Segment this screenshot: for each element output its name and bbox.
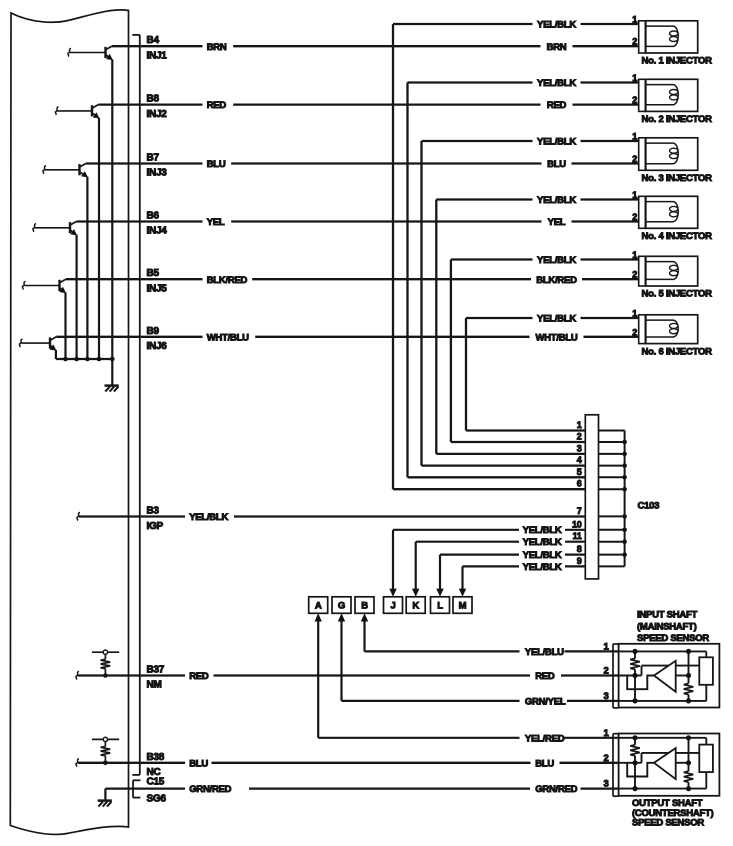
- junction C103 pin 7: [622, 514, 627, 519]
- wire YEL/BLK vertical bus to C103 pin 3: [435, 200, 437, 454]
- C103 pin 6 pass-through: [599, 488, 625, 490]
- svg-text:YEL/BLK: YEL/BLK: [537, 20, 576, 31]
- svg-text:3: 3: [603, 779, 608, 790]
- svg-text:SG6: SG6: [147, 793, 167, 804]
- junction C103 pin 4: [622, 463, 627, 468]
- svg-text:B4: B4: [147, 35, 160, 46]
- C103 pin 4 pass-through: [599, 465, 625, 467]
- svg-text:GRN/RED: GRN/RED: [189, 784, 231, 795]
- input sensor sense element: [699, 657, 713, 685]
- arrow into terminal M: [461, 566, 463, 590]
- injector no.4 connector: [639, 196, 646, 228]
- pin B9/INJ6 wire WHT/BLU (ECM to No.6 injector pin 2): [56, 336, 202, 338]
- svg-text:B38: B38: [147, 752, 165, 763]
- svg-text:2: 2: [632, 212, 637, 222]
- svg-text:YEL/BLK: YEL/BLK: [523, 525, 562, 536]
- terminal box L: [431, 597, 450, 614]
- svg-text:NM: NM: [147, 680, 162, 691]
- C103 pin 8 pass-through: [599, 554, 625, 556]
- arrow into terminal J: [392, 530, 394, 591]
- injector no.1 body with solenoid coil: [646, 21, 698, 53]
- wire bus to ground: [111, 359, 113, 385]
- wire YEL/BLK (C103 to No.3 injector pin 1): [422, 140, 533, 142]
- wire emitter Q6 to ground bus: [55, 350, 57, 359]
- svg-text:2: 2: [603, 753, 608, 764]
- C103 common bus (mating side): [624, 431, 626, 567]
- injector driver transistor Q1: [68, 48, 71, 56]
- output sensor junctions: [632, 735, 637, 740]
- svg-text:2: 2: [632, 95, 637, 105]
- svg-text:(MAINSHAFT): (MAINSHAFT): [637, 621, 697, 632]
- junction B37: [103, 673, 108, 678]
- C103 pin 5 pass-through: [599, 476, 625, 478]
- svg-text:GRN/RED: GRN/RED: [535, 784, 577, 795]
- svg-text:9: 9: [577, 556, 582, 566]
- svg-text:B: B: [361, 601, 368, 612]
- input sensor left bias resistor: [634, 651, 636, 658]
- svg-text:2: 2: [603, 666, 608, 677]
- junction C103 pin 2: [622, 440, 627, 445]
- C103 pin 9 pass-through: [599, 565, 625, 567]
- svg-text:BRN: BRN: [207, 42, 227, 53]
- output sensor connector bracket: [612, 734, 614, 797]
- svg-text:WHT/BLU: WHT/BLU: [207, 332, 249, 343]
- terminal box M: [453, 597, 472, 614]
- injector no.3 body with solenoid coil: [646, 138, 698, 171]
- svg-text:L: L: [437, 601, 443, 612]
- svg-text:B7: B7: [147, 153, 160, 164]
- input sensor junctions: [632, 649, 637, 654]
- wire YEL/BLK (C103 to No.1 injector pin 1): [393, 23, 533, 25]
- wire YEL/BLK C103 pin 8 to terminal L: [440, 553, 519, 555]
- pull-up resistor (B38): [104, 742, 106, 747]
- svg-text:RED: RED: [547, 100, 567, 111]
- svg-text:RED: RED: [535, 671, 555, 682]
- svg-text:1: 1: [632, 73, 637, 83]
- svg-text:INJ3: INJ3: [147, 168, 168, 179]
- pin B37/NM wire RED (to input shaft sensor pin 2): [76, 671, 79, 679]
- terminal box G: [332, 597, 351, 614]
- input sensor sense element connections: [705, 651, 707, 657]
- svg-text:1: 1: [632, 309, 637, 319]
- wire YEL/BLK (C103 to No.4 injector pin 1): [436, 198, 532, 200]
- pin C15/SG6 wire GRN/RED (to output shaft sensor pin 3): [105, 787, 185, 789]
- svg-text:No. 1 INJECTOR: No. 1 INJECTOR: [642, 56, 713, 67]
- C103 pin 3 pass-through: [599, 453, 625, 455]
- wire emitter Q1 to ground bus: [111, 59, 113, 359]
- svg-text:INJ4: INJ4: [147, 226, 168, 237]
- wire YEL/BLK vertical bus to C103 pin 1: [465, 318, 467, 431]
- output sensor top rail (pin 1): [619, 737, 707, 739]
- input sensor top rail (pin 1): [619, 650, 707, 652]
- input sensor pin 2 network: [619, 676, 654, 690]
- svg-text:C103: C103: [638, 501, 660, 512]
- svg-text:YEL: YEL: [207, 217, 225, 228]
- wire YEL/BLU (terminal B to input shaft sensor pin 1): [365, 650, 520, 652]
- svg-text:5: 5: [577, 467, 582, 477]
- svg-text:1: 1: [632, 15, 637, 25]
- injector driver transistor Q5: [22, 281, 25, 289]
- svg-text:1: 1: [632, 132, 637, 142]
- wire YEL/BLK C103 pin 11 to terminal K: [416, 541, 519, 543]
- junction C103 pin 10: [622, 528, 627, 533]
- injector no.6 connector: [639, 315, 646, 344]
- pin B6/INJ4 wire YEL (ECM to No.4 injector pin 2): [76, 220, 202, 222]
- svg-text:3: 3: [603, 691, 608, 702]
- svg-text:3: 3: [577, 443, 582, 453]
- junction C103 pin 11: [622, 539, 627, 544]
- wire YEL/RED (terminal A to output shaft sensor pin 1): [318, 737, 519, 739]
- svg-text:C15: C15: [147, 777, 165, 788]
- svg-text:G: G: [338, 601, 345, 612]
- pin B38/NC wire BLU (to output shaft sensor pin 2): [76, 759, 79, 767]
- injector no.3 connector: [639, 138, 646, 171]
- pin B5/INJ5 wire BLK/RED (ECM to No.5 injector pin 2): [66, 278, 203, 280]
- svg-text:B8: B8: [147, 94, 160, 105]
- wire YEL/BLK C103 pin 9 to terminal M: [463, 565, 520, 567]
- svg-text:BLK/RED: BLK/RED: [536, 275, 577, 286]
- svg-text:B37: B37: [147, 665, 165, 676]
- injector driver transistor Q2: [55, 107, 58, 115]
- injector no.6 body with solenoid coil: [646, 315, 698, 344]
- arrow into terminal G (from GRN/YEL): [340, 619, 342, 701]
- terminal box J: [384, 597, 403, 614]
- svg-text:11: 11: [572, 531, 581, 541]
- svg-text:2: 2: [632, 270, 637, 280]
- junction B38: [103, 761, 108, 766]
- svg-text:YEL/BLK: YEL/BLK: [523, 550, 562, 561]
- svg-text:2: 2: [632, 154, 637, 164]
- output sensor sense element: [699, 745, 713, 773]
- output sensor pin 2 network: [619, 763, 654, 777]
- C103 pin 10 pass-through: [599, 529, 625, 531]
- svg-text:2: 2: [632, 327, 637, 337]
- svg-text:RED: RED: [207, 100, 227, 111]
- svg-text:B9: B9: [147, 326, 160, 337]
- svg-text:YEL/BLU: YEL/BLU: [525, 647, 564, 658]
- terminal box B: [355, 597, 374, 614]
- terminal box K: [406, 597, 425, 614]
- ECM/PCM body outline (torn-edge box): [10, 10, 128, 835]
- ECM connector bracket: [139, 35, 141, 775]
- wire YEL/BLK vertical bus to C103 pin 2: [450, 260, 452, 443]
- output sensor body: [619, 734, 720, 796]
- svg-text:2: 2: [577, 432, 582, 442]
- svg-text:4: 4: [577, 455, 582, 465]
- svg-text:INJ6: INJ6: [147, 341, 168, 352]
- input sensor right bias resistor: [688, 651, 690, 683]
- pin B7/INJ3 wire BLU (ECM to No.3 injector pin 2): [86, 162, 203, 164]
- wire emitter Q4 to ground bus: [75, 235, 77, 359]
- arrow into terminal L: [439, 555, 441, 591]
- svg-text:INJ2: INJ2: [147, 109, 168, 120]
- input sensor connector bracket: [612, 644, 614, 708]
- injector no.5 connector: [639, 256, 646, 286]
- connector C103 body: [585, 415, 598, 579]
- injector driver transistor Q3: [43, 166, 46, 174]
- C103 pin 7 pass-through: [599, 515, 625, 517]
- output sensor sense element connections: [705, 738, 707, 745]
- wire emitter Q3 to ground bus: [86, 177, 88, 359]
- output sensor amplifier output to right rail: [676, 762, 689, 764]
- output sensor left bias resistor: [634, 738, 636, 745]
- output sensor bottom rail (pin 3): [619, 788, 707, 790]
- svg-text:8: 8: [577, 544, 582, 554]
- svg-text:YEL/RED: YEL/RED: [525, 733, 565, 744]
- wire YEL/BLK vertical bus to C103 pin 5: [406, 83, 408, 478]
- input sensor amplifier output to right rail: [676, 675, 689, 677]
- svg-text:IGP: IGP: [147, 521, 164, 532]
- terminal box A: [309, 597, 328, 614]
- junction C103 pin 3: [622, 452, 627, 457]
- ground (injector drivers): [105, 384, 119, 387]
- junction C103 pin 5: [622, 475, 627, 480]
- supply terminal circle (B38): [103, 737, 107, 741]
- arrow into terminal A (from YEL/RED): [317, 619, 319, 738]
- wire YEL/BLK (C103 to No.5 injector pin 1): [451, 258, 533, 260]
- svg-text:6: 6: [577, 479, 582, 489]
- supply terminal circle (B37): [103, 650, 107, 654]
- wire emitter Q2 to ground bus: [98, 118, 100, 359]
- junction C103 pin 6: [622, 487, 627, 492]
- injector no.2 body with solenoid coil: [646, 79, 698, 111]
- injector no.1 connector: [639, 21, 646, 53]
- injector driver transistor Q4: [33, 224, 36, 232]
- wire emitter Q5 to ground bus: [64, 292, 66, 359]
- injector driver transistor Q6: [19, 339, 22, 347]
- svg-text:BLK/RED: BLK/RED: [207, 275, 248, 286]
- input sensor amplifier (comparator): [654, 661, 676, 692]
- svg-text:1: 1: [632, 190, 637, 200]
- svg-text:1: 1: [577, 420, 582, 430]
- C103 pin 1 pass-through: [599, 430, 625, 432]
- C103 pin 11 pass-through: [599, 541, 625, 543]
- svg-text:YEL/BLK: YEL/BLK: [523, 562, 562, 573]
- input sensor bottom rail (pin 3): [619, 700, 707, 702]
- input sensor body: [619, 644, 720, 708]
- wire YEL/BLK vertical bus to C103 pin 6: [392, 24, 394, 489]
- svg-text:BLU: BLU: [535, 758, 554, 769]
- injector no.2 connector: [639, 79, 646, 111]
- svg-text:BLU: BLU: [547, 159, 566, 170]
- svg-text:INJ1: INJ1: [147, 50, 168, 61]
- svg-text:GRN/YEL: GRN/YEL: [525, 697, 566, 708]
- svg-text:2: 2: [632, 37, 637, 47]
- output sensor right bias resistor: [688, 738, 690, 771]
- wire YEL/BLK C103 pin 10 to terminal J: [393, 529, 519, 531]
- pull-up resistor (B37): [104, 654, 106, 659]
- pin B8/INJ2 wire RED (ECM to No.2 injector pin 2): [98, 103, 202, 105]
- svg-text:A: A: [315, 601, 322, 612]
- wire YEL/BLK (C103 to No.2 injector pin 1): [408, 81, 533, 83]
- svg-text:B5: B5: [147, 268, 160, 279]
- svg-text:10: 10: [572, 519, 582, 529]
- pull-up supply bar (B37): [92, 651, 119, 653]
- svg-text:YEL/BLK: YEL/BLK: [537, 314, 576, 325]
- wire GRN/YEL (terminal G to input shaft sensor pin 3): [342, 700, 520, 702]
- pin B3/IGP wire YEL/BLK (to C103 pin 7): [77, 512, 80, 520]
- output sensor amplifier (comparator): [654, 748, 676, 779]
- svg-text:1: 1: [632, 250, 637, 260]
- svg-text:INPUT SHAFT: INPUT SHAFT: [637, 610, 698, 621]
- svg-text:YEL: YEL: [548, 217, 566, 228]
- svg-text:BLU: BLU: [189, 758, 208, 769]
- pin B4/INJ1 wire BRN (ECM to No.1 injector pin 2): [112, 45, 203, 47]
- svg-text:SPEED SENSOR: SPEED SENSOR: [632, 818, 704, 829]
- junction C103 pin 8: [622, 552, 627, 557]
- svg-text:K: K: [412, 601, 419, 612]
- injector no.4 body with solenoid coil: [646, 196, 698, 228]
- svg-text:YEL/BLK: YEL/BLK: [537, 78, 576, 89]
- wire YEL/BLK vertical bus to C103 pin 4: [420, 141, 422, 466]
- pull-up supply bar (B38): [92, 738, 119, 740]
- wire YEL/BLK (C103 to No.6 injector pin 1): [466, 317, 533, 319]
- svg-text:YEL/BLK: YEL/BLK: [189, 512, 228, 523]
- ground bus for injector drivers: [56, 358, 112, 360]
- svg-text:YEL/BLK: YEL/BLK: [537, 255, 576, 266]
- arrow into terminal B (from YEL/BLU): [363, 619, 365, 651]
- svg-text:YEL/BLK: YEL/BLK: [537, 195, 576, 206]
- svg-text:No. 4 INJECTOR: No. 4 INJECTOR: [642, 231, 713, 242]
- svg-text:YEL/BLK: YEL/BLK: [537, 137, 576, 148]
- svg-text:M: M: [459, 601, 467, 612]
- svg-text:7: 7: [577, 506, 582, 516]
- svg-text:J: J: [390, 601, 395, 612]
- svg-text:No. 3 INJECTOR: No. 3 INJECTOR: [642, 173, 713, 184]
- injector no.5 body with solenoid coil: [646, 256, 698, 286]
- svg-text:WHT/BLU: WHT/BLU: [535, 332, 577, 343]
- svg-text:No. 6 INJECTOR: No. 6 INJECTOR: [642, 346, 713, 357]
- svg-text:SPEED SENSOR: SPEED SENSOR: [637, 633, 709, 644]
- svg-text:BRN: BRN: [547, 42, 567, 53]
- svg-text:INJ5: INJ5: [147, 283, 168, 294]
- svg-text:YEL/BLK: YEL/BLK: [523, 537, 562, 548]
- svg-text:B3: B3: [147, 506, 160, 517]
- ground (sensor ground SG6): [98, 799, 112, 802]
- connector C15 bracket: [132, 780, 134, 797]
- C103 pin 2 pass-through: [599, 441, 625, 443]
- svg-text:BLU: BLU: [207, 159, 226, 170]
- svg-text:No. 2 INJECTOR: No. 2 INJECTOR: [642, 114, 713, 125]
- output sensor amplifier input line: [641, 753, 643, 763]
- svg-text:B6: B6: [147, 211, 160, 222]
- svg-text:No. 5 INJECTOR: No. 5 INJECTOR: [642, 289, 713, 300]
- arrow into terminal K: [415, 542, 417, 591]
- wire to sensor ground: [104, 789, 106, 801]
- svg-text:RED: RED: [189, 671, 209, 682]
- input sensor amplifier input line: [641, 666, 643, 676]
